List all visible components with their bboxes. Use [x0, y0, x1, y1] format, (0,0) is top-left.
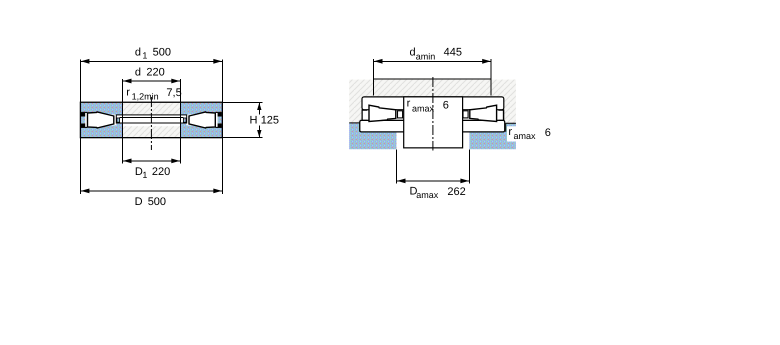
cavity right view	[362, 110, 504, 121]
arrowheads damin	[374, 59, 383, 64]
arrowheads D1	[123, 159, 132, 164]
arrowheads D	[81, 189, 90, 194]
washer block left (blue)	[81, 103, 123, 137]
svg-text:445: 445	[444, 47, 462, 59]
svg-text:262: 262	[447, 186, 465, 198]
washer lip gap left (blue)	[81, 117, 85, 124]
centerline right view	[432, 77, 434, 151]
svg-text:1: 1	[142, 51, 147, 61]
svg-text:1,2min: 1,2min	[132, 92, 159, 102]
housing shoulder left (blue)	[349, 123, 396, 149]
arrowheads Damax	[397, 179, 406, 184]
roller left (right view)	[369, 105, 396, 121]
svg-text:amin: amin	[416, 51, 436, 61]
roller left	[88, 112, 114, 128]
roller pocket right (white cutout)	[186, 112, 222, 128]
shaft step line	[374, 78, 492, 80]
sleeve bar	[116, 115, 186, 123]
H extension top	[222, 101, 262, 103]
svg-text:6: 6	[443, 100, 449, 112]
svg-text:D: D	[135, 196, 143, 208]
svg-text:1: 1	[142, 170, 147, 180]
housing shoulder right top edge	[506, 123, 516, 132]
housing shoulder right (blue)	[469, 123, 516, 149]
svg-text:amax: amax	[416, 190, 439, 200]
pocket top edge line right	[216, 111, 222, 113]
svg-text:d: d	[135, 47, 141, 59]
extension line d/D1 right	[179, 79, 181, 164]
shaft/housing hatch region	[349, 80, 516, 124]
roller right	[189, 112, 215, 128]
bottom washer right view	[360, 120, 505, 131]
hatch band top center	[123, 103, 181, 115]
washer lip top left (black)	[81, 113, 85, 117]
H arrow tails	[258, 103, 260, 115]
dimension line d	[123, 80, 181, 82]
centerline left view	[150, 97, 152, 150]
washer lip bottom left (black)	[81, 123, 85, 127]
dimension line d1	[80, 60, 222, 62]
pocket bottom edge line right	[216, 126, 222, 128]
label ramax 6 right white backing	[507, 126, 556, 141]
svg-text:H: H	[250, 115, 258, 127]
central sleeve block	[404, 97, 463, 148]
extension line damin right	[490, 59, 492, 95]
svg-text:500: 500	[148, 196, 166, 208]
svg-text:r: r	[407, 97, 411, 109]
roller right (right view)	[470, 105, 497, 121]
housing shoulder left top edge	[349, 123, 360, 132]
extension line d1/D right	[221, 59, 223, 194]
svg-text:220: 220	[146, 67, 164, 79]
washer lip bottom right (black)	[218, 123, 222, 127]
svg-text:r: r	[508, 126, 512, 138]
svg-text:220: 220	[152, 166, 170, 178]
cage bracket inner left	[398, 111, 403, 118]
washer lip top right (black)	[218, 113, 222, 117]
pocket bottom edge line left	[81, 126, 87, 128]
hatch band bottom center	[123, 126, 181, 137]
svg-text:6: 6	[545, 127, 551, 139]
extension line damin left	[373, 59, 375, 95]
washer lip gap right (blue)	[218, 117, 222, 124]
H extension bottom	[222, 137, 262, 139]
svg-text:d: d	[135, 67, 141, 79]
svg-text:500: 500	[153, 47, 171, 59]
extension line d1/D left	[79, 59, 81, 194]
svg-text:amax: amax	[412, 103, 435, 113]
dimension line Damax	[397, 180, 470, 182]
dimension line D	[80, 190, 222, 192]
bearing outline	[80, 102, 222, 137]
svg-text:r: r	[126, 86, 130, 98]
extension line Damax right	[468, 150, 470, 184]
cage bracket outer right	[498, 110, 503, 120]
cage bracket outer left	[362, 110, 367, 120]
dimension line D1	[123, 160, 181, 162]
top washer right view	[362, 97, 504, 110]
arrowheads d	[123, 79, 132, 84]
svg-text:amax: amax	[514, 131, 537, 141]
roller pocket left (white cutout)	[81, 112, 116, 128]
extension line Damax left	[396, 150, 398, 184]
cage section square right	[183, 118, 186, 122]
arrowheads H	[257, 103, 261, 110]
pocket top edge line left	[81, 111, 87, 113]
dimension line damin	[374, 60, 492, 62]
cage section square left	[117, 118, 120, 122]
arrowheads d1	[81, 59, 90, 64]
cage bracket inner right	[463, 111, 468, 118]
washer block right (blue)	[180, 103, 222, 137]
extension line d/D1 left	[122, 79, 124, 164]
svg-text:125: 125	[261, 115, 279, 127]
svg-text:7,5: 7,5	[166, 87, 181, 99]
